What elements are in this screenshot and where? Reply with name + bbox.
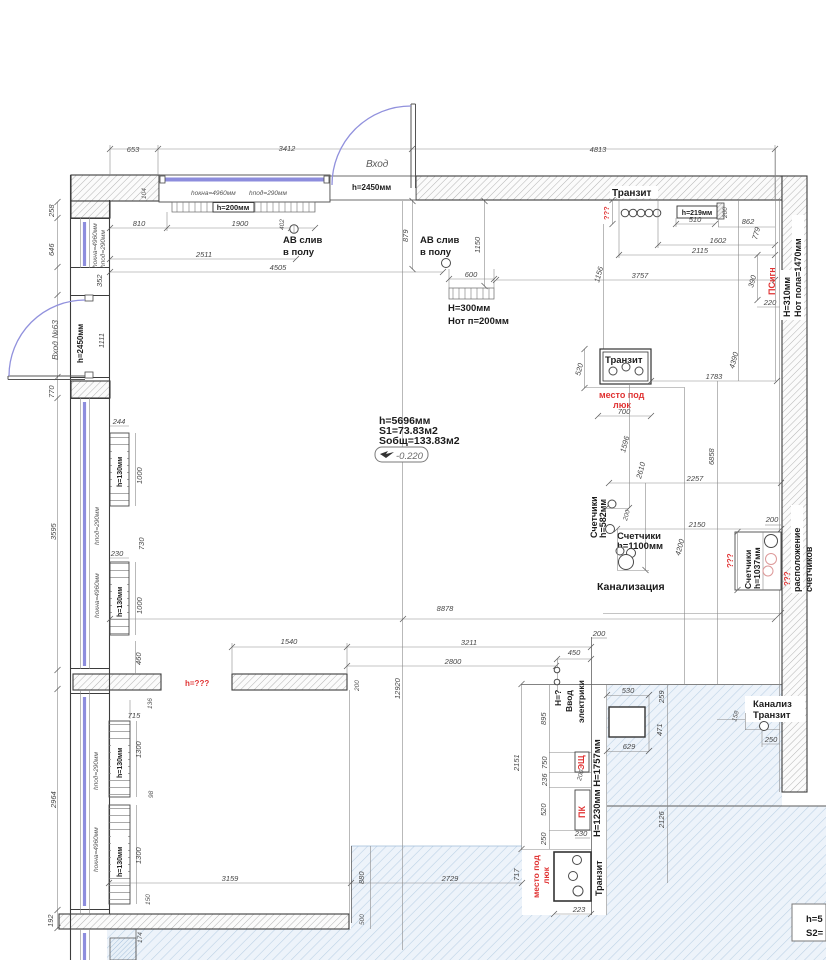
svg-text:h=200мм: h=200мм xyxy=(217,203,250,212)
dimension 1156 rotated xyxy=(592,224,605,349)
wall right band xyxy=(782,176,807,792)
svg-text:2257: 2257 xyxy=(686,474,705,483)
dimension 450 xyxy=(554,648,594,662)
dimension 236 rotated xyxy=(540,773,549,787)
svg-text:место под: место под xyxy=(599,390,645,400)
svg-text:Транзит: Транзит xyxy=(612,188,652,199)
dimension 1000 shelf A xyxy=(135,433,144,506)
svg-text:ЭЩ: ЭЩ xyxy=(576,755,586,770)
dimension 250 rotated xyxy=(539,832,548,846)
dimension 259 rotated xyxy=(657,690,666,704)
label H=310mm rotated xyxy=(780,270,792,320)
svg-text:895: 895 xyxy=(539,712,548,725)
dimension 879 vertical xyxy=(401,198,416,272)
svg-text:1300: 1300 xyxy=(134,740,143,758)
dimension 4200 rotated xyxy=(673,537,686,556)
wall pilaster top right xyxy=(717,203,724,219)
label mesto pod lyuk red rotated bottom xyxy=(531,855,551,898)
box h=219mm xyxy=(677,206,717,218)
red ??? rotated top xyxy=(602,206,611,220)
svg-text:4813: 4813 xyxy=(590,145,608,154)
svg-text:Н=1230мм Н=1757мм: Н=1230мм Н=1757мм xyxy=(592,739,603,837)
svg-text:174: 174 xyxy=(137,932,144,943)
svg-text:646: 646 xyxy=(47,243,56,256)
svg-text:2964: 2964 xyxy=(49,791,58,809)
svg-text:629: 629 xyxy=(623,742,636,751)
dimension 98 rotated xyxy=(148,790,155,798)
shelf box B xyxy=(110,562,129,635)
shelf box C xyxy=(109,721,130,797)
svg-text:2151: 2151 xyxy=(512,754,521,772)
svg-text:3595: 3595 xyxy=(49,522,58,540)
dimension 717 rotated xyxy=(512,868,521,881)
box ESch red xyxy=(575,752,589,772)
dimension 200 mid band end xyxy=(354,680,361,692)
label raspolozhenie schetchikov rotated xyxy=(791,505,814,593)
dimension 200 rotated ESch xyxy=(576,769,586,783)
dimension 1300 shelf C xyxy=(134,721,143,797)
svg-text:3211: 3211 xyxy=(461,638,477,647)
svg-text:1540: 1540 xyxy=(281,637,299,646)
svg-text:Канализация: Канализация xyxy=(597,581,665,593)
boundary lines bottom center xyxy=(350,690,371,929)
window left W4 below xyxy=(81,929,90,960)
svg-text:h=130мм: h=130мм xyxy=(117,748,124,778)
window left W3 xyxy=(70,690,109,914)
svg-text:h=2450мм: h=2450мм xyxy=(76,324,85,363)
svg-text:Ввод: Ввод xyxy=(564,690,574,712)
boundary line y806 xyxy=(607,805,826,807)
label h=??? red xyxy=(185,679,209,688)
label H=1230mm H=1757mm rotated xyxy=(592,739,603,837)
dimension 2151 rotated xyxy=(512,681,525,852)
svg-text:люк: люк xyxy=(541,866,551,884)
window labels W1 rotated xyxy=(92,223,107,268)
elevation marker -0.220 xyxy=(375,447,428,462)
svg-text:402: 402 xyxy=(279,219,286,230)
svg-text:???: ??? xyxy=(783,571,792,586)
label Вход №63 rotated xyxy=(50,320,60,360)
dimension 4505 xyxy=(107,263,446,275)
svg-text:2511: 2511 xyxy=(195,250,212,259)
box PK red xyxy=(575,790,590,830)
ramp strip H=300 xyxy=(449,288,494,299)
dense blue hatch box bottom-left xyxy=(110,929,136,960)
svg-text:230: 230 xyxy=(574,829,588,838)
neighbor zone blue hatch bottom center xyxy=(107,846,607,960)
label h=2450 rotated left door xyxy=(76,324,85,363)
svg-text:Н=310мм: Н=310мм xyxy=(782,277,792,317)
svg-text:730: 730 xyxy=(137,537,146,550)
counters h=582 labels rotated xyxy=(589,496,608,538)
svg-text:653: 653 xyxy=(127,145,140,154)
svg-text:530: 530 xyxy=(622,686,635,695)
wall top band xyxy=(416,176,782,200)
dimension 3757 xyxy=(493,271,778,283)
dimension 258 xyxy=(47,204,56,218)
electrical column frame xyxy=(521,637,607,915)
dimension 2115 xyxy=(616,200,778,258)
svg-text:750: 750 xyxy=(540,756,549,769)
svg-text:h=2450мм: h=2450мм xyxy=(352,183,391,192)
svg-text:h=130мм: h=130мм xyxy=(117,847,124,877)
svg-text:250: 250 xyxy=(764,735,778,744)
svg-text:расположение: расположение xyxy=(792,528,802,592)
dimension 174 rotated bottom xyxy=(137,932,144,943)
dimension 770 xyxy=(47,385,56,398)
wall middle band right part xyxy=(232,674,347,690)
dimension 2800 xyxy=(344,657,559,669)
neighbor zone blue hatch right xyxy=(607,685,826,960)
svg-text:hпод=290мм: hпод=290мм xyxy=(92,752,100,790)
svg-text:510: 510 xyxy=(689,215,702,224)
dimension chain 810 1900 402 xyxy=(107,212,318,231)
svg-text:Транзит: Транзит xyxy=(594,860,604,896)
label Kanalizaciya xyxy=(597,581,665,593)
dimension 1602 xyxy=(655,200,778,248)
room area label xyxy=(379,415,460,447)
tranzit middle box xyxy=(600,349,651,384)
wall right end cap xyxy=(780,198,808,792)
svg-text:Транзит: Транзит xyxy=(753,710,791,721)
svg-text:98: 98 xyxy=(148,790,155,798)
svg-text:hокна=4960мм: hокна=4960мм xyxy=(94,573,101,618)
sill strip h=200mm xyxy=(172,202,315,212)
svg-text:6858: 6858 xyxy=(707,447,716,465)
svg-text:192: 192 xyxy=(46,914,55,927)
svg-text:810: 810 xyxy=(133,219,146,228)
dimension 880 rotated xyxy=(357,871,366,884)
wall left inner face line xyxy=(109,200,111,914)
svg-text:770: 770 xyxy=(47,385,56,398)
dimension 2610 rotated xyxy=(634,460,649,573)
svg-text:236: 236 xyxy=(540,773,549,787)
svg-text:244: 244 xyxy=(112,417,126,426)
svg-text:счетчиков: счетчиков xyxy=(804,546,814,592)
svg-text:в полу: в полу xyxy=(420,247,452,258)
svg-text:150: 150 xyxy=(145,894,152,905)
dimension 150 rotated xyxy=(145,894,152,905)
dimension 136 rotated xyxy=(147,698,154,709)
svg-text:715: 715 xyxy=(128,711,141,720)
svg-text:4505: 4505 xyxy=(270,263,288,272)
svg-text:Вход: Вход xyxy=(366,159,389,170)
svg-text:h=1037мм: h=1037мм xyxy=(752,547,762,589)
svg-text:S2=: S2= xyxy=(806,928,824,939)
svg-text:hпод=290мм: hпод=290мм xyxy=(99,230,107,268)
dimension 223 xyxy=(551,905,594,917)
svg-text:8878: 8878 xyxy=(437,604,455,613)
label Tranzit top xyxy=(610,186,658,199)
right extension lines xyxy=(719,149,776,381)
dim line left of counters box xyxy=(735,529,741,593)
window labels W3 rotated xyxy=(92,752,100,872)
svg-text:600: 600 xyxy=(465,270,478,279)
window top assembly xyxy=(159,175,330,202)
svg-text:hпод=290мм: hпод=290мм xyxy=(249,189,287,197)
tranzit bottom box xyxy=(554,852,591,901)
floor drain 1 circle xyxy=(290,224,298,233)
dimension 230 PK xyxy=(574,829,590,838)
svg-text:259: 259 xyxy=(657,690,666,704)
dimension 460 xyxy=(134,641,143,674)
svg-text:230: 230 xyxy=(110,549,124,558)
dimension 6858 rotated xyxy=(707,381,718,685)
dimension 520 rotated xyxy=(539,803,548,816)
svg-text:2150: 2150 xyxy=(688,520,707,529)
floor drain 2 circle xyxy=(442,259,451,268)
wall top-left corner block xyxy=(71,175,159,218)
box 530 inner rect xyxy=(604,686,652,754)
svg-text:471: 471 xyxy=(655,723,664,736)
svg-text:Канализ: Канализ xyxy=(753,699,792,710)
dimension 352 rotated xyxy=(95,274,104,287)
label H=300 Hot p=200 xyxy=(448,303,509,327)
svg-text:220: 220 xyxy=(763,298,777,307)
red qqq left of counters box xyxy=(726,553,735,568)
svg-text:h=???: h=??? xyxy=(185,679,209,688)
svg-text:в полу: в полу xyxy=(283,247,315,258)
svg-text:h=130мм: h=130мм xyxy=(117,587,124,617)
svg-text:136: 136 xyxy=(147,698,154,709)
dimension 1150 vertical xyxy=(473,198,488,289)
red qqq below counters box xyxy=(783,571,792,586)
wall middle band left part xyxy=(73,674,161,690)
svg-text:1300: 1300 xyxy=(134,846,143,864)
window labels W2 rotated xyxy=(93,507,101,618)
dimension 510 xyxy=(673,215,718,227)
svg-text:Нот п=200мм: Нот п=200мм xyxy=(448,316,509,327)
entrance door swing arc top xyxy=(332,106,411,185)
dimension 200 top of column xyxy=(591,629,607,638)
label Вход top xyxy=(366,159,389,170)
svg-text:электрики: электрики xyxy=(576,680,586,723)
dimension 1111 rotated xyxy=(97,333,106,348)
svg-text:1783: 1783 xyxy=(706,372,724,381)
svg-text:Sобщ=133.83м2: Sобщ=133.83м2 xyxy=(379,435,460,447)
svg-text:700: 700 xyxy=(618,407,631,416)
entrance door top opening xyxy=(330,176,416,200)
dimension 895 rotated xyxy=(539,712,548,725)
shelf box D xyxy=(109,805,130,904)
dimension 200 above counters box xyxy=(765,515,781,525)
svg-text:1150: 1150 xyxy=(473,236,482,253)
dimension 12920 rotated xyxy=(393,677,402,699)
label mesto pod lyuk red xyxy=(599,390,645,410)
window left W1 xyxy=(70,218,109,268)
svg-text:???: ??? xyxy=(726,553,735,568)
dimension 200 rotated bottom xyxy=(0,0,1,1)
svg-text:Н=?: Н=? xyxy=(553,690,563,706)
svg-text:717: 717 xyxy=(512,868,521,881)
svg-text:3412: 3412 xyxy=(279,144,297,153)
svg-text:2115: 2115 xyxy=(691,246,709,255)
svg-text:Н=300мм: Н=300мм xyxy=(448,303,490,314)
dimension 220 xyxy=(757,298,780,307)
label H=? Vvod elektriki rotated xyxy=(553,680,586,723)
wire line y387 xyxy=(584,387,685,685)
svg-text:862: 862 xyxy=(742,217,755,226)
door left opening xyxy=(70,295,109,378)
wire line y613 xyxy=(603,610,784,616)
dimension 730 xyxy=(137,537,146,550)
dimension 779 rotated xyxy=(750,225,762,240)
label AB sliv 2 xyxy=(420,235,460,258)
dimension chain top 653 3412 4813 xyxy=(107,144,778,200)
svg-text:ПК: ПК xyxy=(577,806,587,818)
label 104 rotated xyxy=(141,188,148,199)
svg-text:2800: 2800 xyxy=(444,657,463,666)
svg-text:258: 258 xyxy=(47,204,56,218)
svg-text:520: 520 xyxy=(539,803,548,816)
svg-text:2729: 2729 xyxy=(441,874,460,883)
label PSign red rotated xyxy=(767,267,777,295)
svg-text:450: 450 xyxy=(568,648,581,657)
svg-text:460: 460 xyxy=(134,652,143,665)
vent circles row xyxy=(621,209,661,217)
area box bottom right xyxy=(792,904,826,941)
entrance door leaf top xyxy=(411,104,416,188)
dimension 200 rotated pilaster xyxy=(722,207,729,219)
svg-text:352: 352 xyxy=(95,274,104,287)
svg-text:1900: 1900 xyxy=(232,219,250,228)
door left swing arc xyxy=(9,300,85,376)
dimension 4390 rotated xyxy=(727,350,740,369)
dimension chain 1540 3211 xyxy=(229,637,594,674)
counters h=1100 circles xyxy=(616,547,636,570)
dimension 192 xyxy=(46,914,55,927)
label Tranzit rotated bottom xyxy=(594,860,604,896)
dim line left of circles xyxy=(610,197,616,227)
svg-text:250: 250 xyxy=(539,832,548,846)
svg-text:1602: 1602 xyxy=(710,236,728,245)
counters box right h=1037 xyxy=(735,532,781,590)
wall bottom band xyxy=(59,914,349,929)
svg-text:104: 104 xyxy=(141,188,148,199)
dimension 1596 rotated xyxy=(618,434,631,453)
svg-text:h=130мм: h=130мм xyxy=(117,457,124,487)
center construction line x403 xyxy=(402,201,404,950)
counters h=582 circles xyxy=(606,500,617,534)
dimension 2964 xyxy=(49,791,58,809)
dimension 244 xyxy=(110,417,129,426)
dimension 2257 xyxy=(606,474,784,486)
dimension 200 rotated counters xyxy=(622,509,632,523)
svg-text:-0.220: -0.220 xyxy=(396,451,424,462)
svg-text:Вход №63: Вход №63 xyxy=(50,320,60,360)
kanaliz fixture xyxy=(717,710,780,731)
svg-text:1000: 1000 xyxy=(135,466,144,484)
svg-text:???: ??? xyxy=(602,206,611,220)
svg-text:АВ слив: АВ слив xyxy=(420,235,460,246)
svg-text:hокна=4960мм: hокна=4960мм xyxy=(93,827,100,872)
dimension 8878 xyxy=(107,604,778,622)
dimension 600 xyxy=(446,269,497,288)
counters h=1100 frame xyxy=(617,529,649,571)
dimension 750 rotated xyxy=(540,756,549,769)
svg-text:hокна=4960мм: hокна=4960мм xyxy=(92,223,99,268)
dimension 2126 rotated xyxy=(657,684,668,883)
dimension 700 xyxy=(595,407,654,419)
wall left pier between door and window xyxy=(71,381,110,398)
dimension 500 rotated xyxy=(359,914,366,925)
wall left outer face line xyxy=(70,175,72,960)
dimension 2511 xyxy=(107,250,299,262)
dimension chain 3159 2729 xyxy=(106,874,525,886)
svg-text:200: 200 xyxy=(592,629,606,638)
dimension 715 xyxy=(128,700,141,720)
svg-text:880: 880 xyxy=(357,871,366,884)
svg-text:200: 200 xyxy=(765,515,779,524)
blue hatch top boundary line xyxy=(351,685,782,847)
svg-text:h=5: h=5 xyxy=(806,914,823,925)
dimension 520 tranzit xyxy=(573,346,587,391)
label AB sliv 1 xyxy=(283,235,323,258)
svg-text:500: 500 xyxy=(359,914,366,925)
door left leaf xyxy=(8,376,85,380)
svg-text:3757: 3757 xyxy=(632,271,650,280)
label Not pola=1470mm rotated xyxy=(792,215,804,320)
shelf box A xyxy=(110,433,129,506)
dimension 3595 xyxy=(49,522,58,540)
dimension 1000 shelf B xyxy=(135,562,144,635)
svg-text:АВ слив: АВ слив xyxy=(283,235,323,246)
svg-text:223: 223 xyxy=(572,905,586,914)
dimension 862 xyxy=(718,217,775,227)
dimension 2150 xyxy=(614,520,784,532)
svg-text:1111: 1111 xyxy=(97,333,106,348)
dimension 646 xyxy=(47,243,56,256)
dimension 230 shelf xyxy=(110,549,129,558)
window left W2 long xyxy=(70,398,109,669)
counters h=1100 label xyxy=(617,531,663,552)
wire x629 from tranzit to counters xyxy=(603,384,632,511)
svg-text:1000: 1000 xyxy=(135,596,144,614)
dimension 1783 xyxy=(648,372,780,384)
dimension 250 kanaliz xyxy=(762,730,780,747)
label Kanaliz Tranzit xyxy=(745,696,805,722)
dimension 471 rotated xyxy=(655,723,664,736)
electric intake circles xyxy=(554,659,560,690)
svg-text:hокна=4960мм: hокна=4960мм xyxy=(191,190,236,197)
dimension 390 rotated xyxy=(746,252,760,303)
svg-text:200: 200 xyxy=(722,207,729,219)
svg-text:12920: 12920 xyxy=(393,677,402,699)
dimension 1300 shelf D xyxy=(134,805,143,904)
svg-text:2126: 2126 xyxy=(657,810,666,829)
svg-text:hпод=290мм: hпод=290мм xyxy=(93,507,101,545)
svg-text:200: 200 xyxy=(354,680,361,692)
left outer dim line vertical xyxy=(55,199,61,931)
svg-text:место под: место под xyxy=(531,855,541,898)
svg-text:3159: 3159 xyxy=(222,874,240,883)
svg-text:Нот пола=1470мм: Нот пола=1470мм xyxy=(793,238,803,317)
